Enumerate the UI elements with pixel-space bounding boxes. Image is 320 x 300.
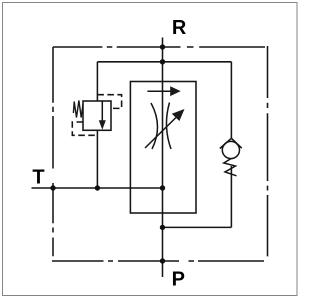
wire: T port horizontal line [32,187,163,189]
flow control valve FC body [130,82,196,214]
check valve spring [224,158,237,175]
drain line (dashed) from relief valve [72,122,97,135]
enclosure boundary bottom (dash-dot) [52,260,264,262]
wire: lower horizontal to main line [163,226,232,228]
enclosure boundary right (dash-dot) [267,46,269,256]
wire: right branch down to check valve [230,62,232,139]
svg-text:P: P [172,268,185,290]
variable throttle arcs [151,103,171,150]
wire: upper horizontal branch [97,61,231,63]
wire: check valve outlet down [230,166,232,227]
junction dot T line at main line [160,185,165,190]
flow direction arrow in FC body [147,86,180,96]
junction dot at R boundary [160,44,165,49]
wire: relief valve outlet down to T line [96,130,98,188]
junction dot at P boundary [160,258,165,263]
check valve ball [222,141,239,158]
svg-text:R: R [172,17,187,39]
junction dot at T boundary [50,185,55,190]
junction dot upper branch [160,59,165,64]
check valve seat [220,138,242,148]
junction dot lower branch [160,225,165,230]
svg-text:T: T [32,166,44,188]
wire: left branch down to relief valve [96,62,98,101]
pilot line (dashed) to relief valve [97,95,121,109]
variable throttle adjustment arrow [145,109,185,148]
relief valve internal arrow [99,101,106,130]
junction dot relief branch on T line [95,185,100,190]
relief valve spring [73,101,83,118]
enclosure boundary left (dash-dot) [52,47,54,256]
relief valve V1 body [83,101,111,130]
enclosure boundary top (dash-dot) [53,46,265,48]
wire: main vertical line R to P [162,38,164,278]
